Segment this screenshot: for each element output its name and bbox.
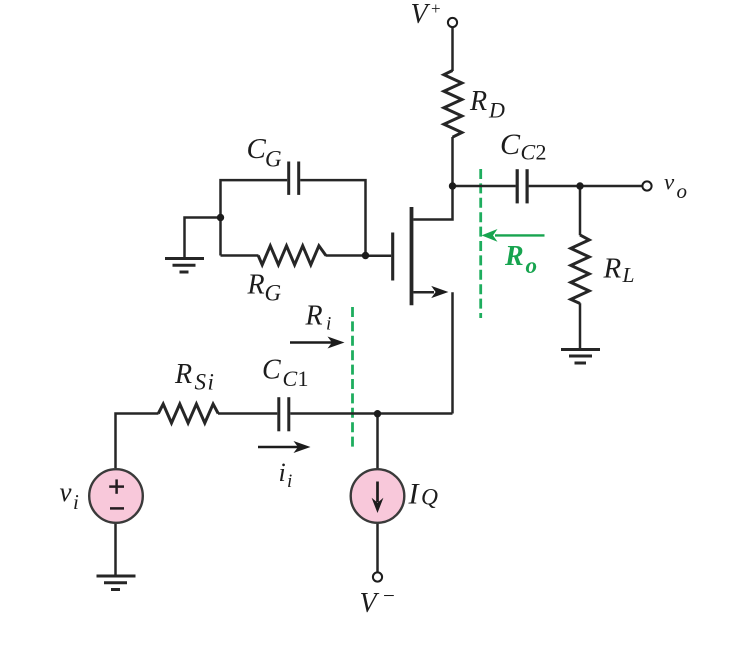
capacitor CG [287,162,290,195]
wire RG right [326,254,366,257]
svg-text:V: V [360,588,380,619]
svg-text:o: o [677,179,688,203]
label CC1 [262,355,309,392]
label CG [247,133,283,172]
label RD [469,86,505,123]
label Ro [504,241,537,278]
svg-text:−: − [383,584,395,608]
wire IQ bottom [376,523,379,572]
svg-text:G: G [265,147,282,172]
svg-text:1: 1 [298,366,309,391]
svg-text:i: i [208,370,214,395]
ground vi [97,576,136,590]
svg-text:R: R [174,359,192,390]
label Ri [305,301,332,335]
dashed line Ro [479,169,482,318]
node gate right [362,252,369,259]
resistor RSi [158,404,218,423]
wire vo node down to RL [579,186,582,235]
wire vo node to terminal [580,185,642,188]
svg-text:R: R [247,270,265,301]
wire drain node to CC2 [453,185,516,188]
svg-text:S: S [195,370,207,395]
svg-text:C: C [500,128,521,161]
svg-text:Q: Q [421,485,438,511]
terminal V+ [448,18,457,27]
label vo [664,170,687,204]
arrow ii [258,446,298,448]
svg-text:C: C [247,133,267,165]
svg-text:i: i [279,458,286,487]
svg-text:D: D [488,98,505,123]
svg-text:L: L [622,263,635,287]
resistor RD [444,71,462,138]
svg-text:I: I [408,478,421,511]
ground CG [165,259,204,273]
svg-text:R: R [603,253,622,285]
wire vi to ground [114,524,117,576]
label RSi [174,359,214,395]
wire RG left [221,254,259,257]
svg-text:v: v [60,477,72,507]
svg-text:C: C [262,355,281,386]
source M1 arrow [431,286,448,298]
svg-text:v: v [664,170,675,195]
wire CG node to ground [185,218,221,258]
ground RL [561,350,600,364]
current source IQ [351,469,405,523]
arrow Ri [290,341,332,343]
wire CG top left [221,180,288,255]
svg-text:R: R [469,86,487,117]
label V+ [411,0,441,30]
voltage source vi [89,469,143,523]
svg-text:o: o [526,253,538,278]
svg-text:i: i [73,490,79,514]
node drain [449,182,456,189]
wire source node horizontal [290,412,452,415]
label vi [60,477,80,514]
capacitor CC1 [277,397,280,431]
svg-text:2: 2 [536,140,547,165]
label RG [247,270,282,306]
wire RD to drain node [451,137,454,186]
arrow Ro [495,234,545,236]
svg-text:C: C [283,366,298,391]
wire V+ to RD [451,27,454,71]
wire RL to ground [579,303,582,348]
svg-text:R: R [305,301,323,332]
wire CC2 to vo node [529,185,580,188]
terminal V- [373,572,382,581]
wire gate lead [366,254,392,257]
transistor M1 channel bar [410,207,414,305]
label CC2 [500,128,547,165]
capacitor CC2 [516,169,519,203]
svg-text:R: R [504,241,524,272]
label ii [279,458,293,492]
svg-text:i: i [326,314,331,335]
label RL [603,253,635,288]
svg-text:i: i [287,471,292,492]
terminal vo [642,181,651,190]
resistor RL [571,235,589,304]
wire source lead [413,291,434,294]
svg-text:V: V [411,0,431,30]
node source [374,410,381,417]
wire vi to RSi [116,414,159,469]
svg-text:C: C [521,140,536,165]
wire RSi to CC1 [218,412,277,415]
dashed line Ri [351,307,354,450]
node gate left [217,214,224,221]
transistor M1 gate bar [391,233,394,281]
wire source to input node [451,292,454,413]
svg-text:G: G [265,281,282,306]
label IQ [408,478,439,511]
wire drain lead [413,187,452,220]
svg-text:+: + [431,0,441,18]
resistor RG [258,246,326,265]
wire CG top right [300,180,365,255]
label V- [360,584,395,620]
wire IQ top [376,414,379,470]
node vo [576,182,583,189]
